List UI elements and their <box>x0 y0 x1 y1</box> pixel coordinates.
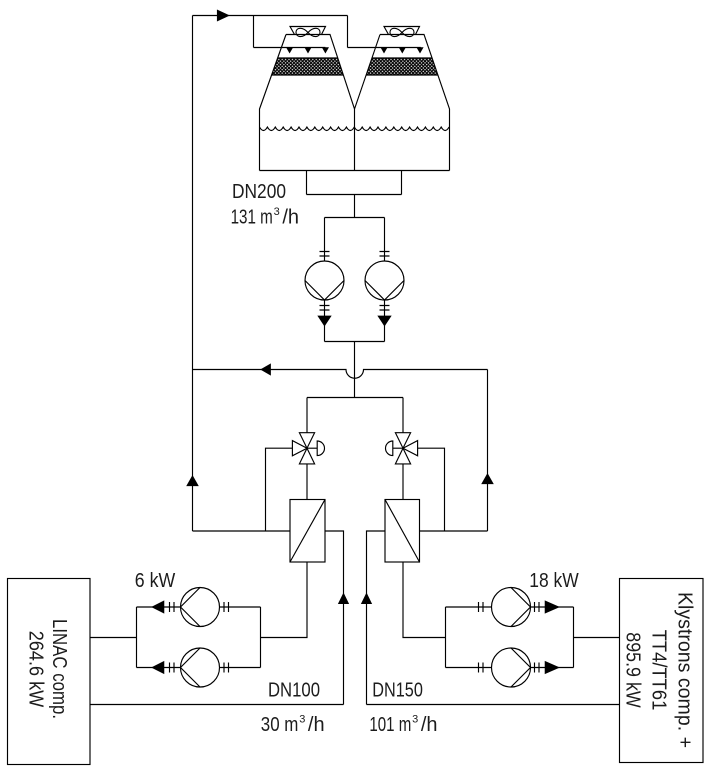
pump P6 <box>492 648 531 687</box>
wire upper branch left <box>137 606 261 608</box>
cooling tower CT2 fan housing <box>384 27 420 35</box>
basin bottom shared <box>260 170 450 172</box>
cooling tower CT1 fan blades <box>296 28 320 36</box>
wire V1 bypass <box>266 448 293 531</box>
wire distribution tee <box>307 397 403 399</box>
pump P3 <box>181 588 220 627</box>
wire pump branch right lower <box>384 300 386 342</box>
spray nozzle <box>417 48 422 53</box>
wire lower branch left <box>137 667 261 669</box>
svg-text:6 kW: 6 kW <box>135 570 176 592</box>
flange pair <box>380 306 390 311</box>
wire HX2 primary to right riser <box>420 530 488 532</box>
three-way valve V2 <box>386 433 418 464</box>
flow arrow right on top header <box>218 10 229 20</box>
wire upper branch right <box>446 606 574 608</box>
wire pump branch left lower <box>324 300 326 342</box>
svg-text:264.6 kW: 264.6 kW <box>24 631 46 708</box>
pump P2 <box>365 261 404 300</box>
suction header <box>307 194 402 196</box>
LINAC consumer box <box>8 579 91 765</box>
flange pair <box>320 252 330 257</box>
spray nozzle <box>381 48 386 53</box>
flange pair <box>479 602 484 612</box>
water level wave CT1+CT2 <box>260 127 450 131</box>
wire left riser <box>192 16 194 532</box>
spray nozzle <box>400 48 405 53</box>
heat exchanger HX1 <box>290 500 325 563</box>
wire HX1 bottom to pump loop <box>261 562 308 638</box>
spray nozzle <box>287 48 292 53</box>
check valve down <box>378 316 390 325</box>
spray nozzle <box>323 48 328 53</box>
right tower spray header <box>348 47 421 49</box>
return header with crossing hop <box>193 370 488 379</box>
svg-text:101 m3/h: 101 m3/h <box>369 714 437 736</box>
wire pump branch right upper <box>384 218 386 262</box>
wire pump suction tee <box>325 217 385 219</box>
wire riser to HX1 primary <box>193 530 291 532</box>
svg-text:Klystrons comp. +: Klystrons comp. + <box>674 592 696 748</box>
left pump group left junction <box>136 607 138 668</box>
basin outlet stub right <box>401 171 403 195</box>
wire V2 to HX2 <box>402 464 404 500</box>
check valve left <box>152 662 163 673</box>
pump P4 <box>181 648 220 687</box>
left pump group right junction <box>260 607 262 668</box>
wire LINAC supply stub <box>90 637 137 639</box>
cooling tower CT1 outline <box>260 35 355 171</box>
flange pair <box>224 602 229 612</box>
check valve left <box>152 601 163 612</box>
wire V2 bypass <box>418 448 445 531</box>
three-way valve V1 <box>292 433 324 464</box>
flow arrow up on right riser <box>482 474 493 483</box>
flange pair <box>320 306 330 311</box>
svg-text:DN150: DN150 <box>372 680 423 702</box>
cooling tower CT1 fill band borders <box>272 58 344 75</box>
flange pair <box>535 663 540 673</box>
wire drop to valve V2 <box>402 398 404 433</box>
Klystrons consumer box <box>620 579 704 763</box>
flange pair <box>479 663 484 673</box>
wire center drop to distribution <box>354 342 356 398</box>
check valve down <box>318 316 330 325</box>
wire V1 to HX1 <box>306 464 308 500</box>
wire HX2 secondary out <box>367 531 386 705</box>
cooling tower CT2 fan blades <box>390 28 414 36</box>
cooling tower CT1 fill band hatch <box>272 58 344 75</box>
flange pair <box>170 602 175 612</box>
svg-text:30 m3/h: 30 m3/h <box>261 714 325 736</box>
right pump group right junction <box>573 607 575 668</box>
flow arrow up on left riser <box>187 476 198 485</box>
cooling tower CT2 outline <box>355 35 450 171</box>
pump P1 <box>305 261 344 300</box>
wire pump branch left upper <box>324 218 326 262</box>
left tower spray header <box>254 47 326 49</box>
wire top supply header <box>193 15 348 17</box>
cooling tower CT2 fill band hatch <box>366 58 438 75</box>
right pump group left junction <box>445 607 447 668</box>
wire LINAC return line <box>90 704 344 706</box>
cooling tower CT2 fill band borders <box>366 58 438 75</box>
svg-text:TT4/TT61: TT4/TT61 <box>648 630 670 711</box>
basin outlet stub left <box>306 171 308 195</box>
spray nozzle <box>305 48 310 53</box>
svg-text:DN100: DN100 <box>268 680 320 702</box>
flow arrow up <box>362 594 371 604</box>
wire drop to left tower spray <box>253 16 255 48</box>
wire HX2 bottom to pump loop <box>403 562 446 638</box>
flange pair <box>170 663 175 673</box>
svg-text:LINAC comp.: LINAC comp. <box>48 619 70 719</box>
wire lower branch right <box>446 667 574 669</box>
cooling tower CT1 fan housing <box>290 27 326 35</box>
wire drop to right tower spray <box>347 16 349 48</box>
flow arrow up <box>339 594 348 604</box>
svg-text:18 kW: 18 kW <box>529 570 579 592</box>
flange pair <box>224 663 229 673</box>
wire HX1 secondary out <box>325 531 344 705</box>
svg-text:895.9 kW: 895.9 kW <box>622 632 644 708</box>
wire right riser <box>487 370 489 532</box>
wire pump discharge join <box>325 341 385 343</box>
wire drop to valve V1 <box>306 398 308 433</box>
svg-text:131 m3/h: 131 m3/h <box>231 206 299 228</box>
check valve right <box>545 662 558 673</box>
wire header drop <box>354 195 356 218</box>
wire Klystrons return line <box>367 704 620 706</box>
pump P5 <box>492 588 531 627</box>
check valve right <box>545 601 558 612</box>
flange pair <box>535 602 540 612</box>
flange pair <box>380 252 390 257</box>
wire Klystrons supply stub <box>574 637 620 639</box>
heat exchanger HX2 <box>385 500 420 563</box>
flow arrow left on return header <box>261 364 270 374</box>
svg-text:DN200: DN200 <box>232 181 286 203</box>
